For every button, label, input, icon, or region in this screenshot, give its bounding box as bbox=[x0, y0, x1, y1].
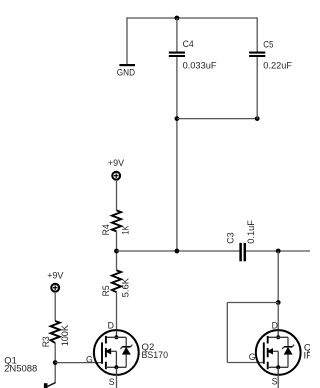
svg-text:5.6K: 5.6K bbox=[121, 277, 132, 297]
wire bbox=[116, 375, 118, 388]
svg-text:0.033uF: 0.033uF bbox=[183, 61, 217, 72]
wire bbox=[277, 303, 279, 331]
svg-text:100K: 100K bbox=[60, 325, 71, 347]
wire bbox=[246, 250, 310, 252]
transistor Q1 bbox=[4, 356, 55, 388]
capacitor C3 bbox=[226, 220, 257, 261]
capacitor C4 bbox=[169, 39, 217, 72]
power +9V bbox=[108, 158, 125, 179]
wire bbox=[126, 17, 128, 64]
wire bbox=[117, 250, 240, 252]
junction bbox=[175, 116, 180, 121]
svg-text:S: S bbox=[272, 377, 278, 388]
power +9V bbox=[47, 271, 64, 292]
junction bbox=[276, 300, 281, 305]
wire bbox=[277, 251, 279, 303]
svg-text:IRF510: IRF510 bbox=[304, 350, 311, 361]
junction bbox=[53, 360, 58, 365]
svg-text:+9V: +9V bbox=[108, 158, 125, 169]
resistor R5 bbox=[101, 270, 131, 297]
junction bbox=[114, 249, 119, 254]
junction bbox=[175, 16, 180, 21]
wire bbox=[54, 343, 56, 383]
svg-text:R4: R4 bbox=[101, 224, 112, 236]
junction bbox=[255, 116, 260, 121]
wire bbox=[126, 17, 257, 19]
svg-text:C5: C5 bbox=[263, 39, 273, 50]
svg-text:C3: C3 bbox=[226, 232, 237, 243]
svg-text:0.1uF: 0.1uF bbox=[246, 220, 257, 244]
wire bbox=[116, 292, 118, 330]
wire bbox=[176, 57, 178, 251]
svg-text:0.22uF: 0.22uF bbox=[263, 61, 292, 72]
ground bbox=[117, 65, 135, 79]
wire bbox=[256, 17, 258, 51]
junction bbox=[175, 249, 180, 254]
wire bbox=[227, 302, 278, 304]
wire bbox=[226, 303, 228, 363]
svg-text:+9V: +9V bbox=[47, 271, 64, 282]
svg-text:R3: R3 bbox=[41, 336, 52, 347]
wire bbox=[116, 231, 118, 270]
wire bbox=[54, 292, 56, 321]
svg-text:G: G bbox=[86, 354, 93, 365]
wire bbox=[277, 375, 279, 388]
svg-text:1K: 1K bbox=[121, 225, 132, 234]
wire bbox=[55, 362, 102, 364]
svg-text:BS170: BS170 bbox=[142, 350, 169, 361]
svg-text:D: D bbox=[108, 320, 114, 331]
svg-text:G: G bbox=[249, 352, 256, 363]
wire bbox=[176, 18, 178, 52]
junction bbox=[276, 249, 281, 254]
svg-text:C4: C4 bbox=[183, 39, 195, 50]
wire bbox=[177, 118, 257, 120]
svg-text:2N5088: 2N5088 bbox=[4, 364, 37, 375]
transistor Q4 bbox=[249, 320, 320, 387]
resistor R4 bbox=[101, 210, 131, 235]
wire bbox=[116, 180, 118, 211]
svg-text:R5: R5 bbox=[101, 285, 112, 296]
capacitor C5 bbox=[249, 39, 292, 71]
wire bbox=[256, 57, 258, 119]
transistor Q2 bbox=[86, 320, 168, 388]
svg-text:D: D bbox=[272, 320, 278, 331]
svg-text:S: S bbox=[109, 377, 115, 388]
resistor R3 bbox=[41, 321, 71, 347]
wire bbox=[227, 362, 264, 364]
svg-text:GND: GND bbox=[117, 68, 135, 79]
